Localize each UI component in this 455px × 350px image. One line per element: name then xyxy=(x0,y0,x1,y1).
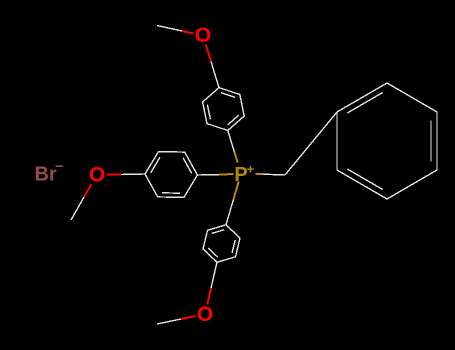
bond P-to-top-ring (orange half) xyxy=(234,152,241,174)
bond P-to-bottom-ring (white half) xyxy=(226,199,234,225)
bond O-top to methyl (red half) xyxy=(182,31,203,35)
bond P-to-top-ring (white half) xyxy=(228,131,235,153)
bond O-bottom to methyl (white half) xyxy=(157,319,181,324)
benzene ring top anisyl xyxy=(203,88,245,131)
aromatic inner bond top anisyl xyxy=(228,115,239,125)
aromatic inner bond big phenyl xyxy=(430,121,432,162)
aromatic inner bond top anisyl xyxy=(207,105,210,120)
bond O-bottom to ring (white half) xyxy=(211,262,217,288)
atom label O bottom xyxy=(196,305,215,324)
bond O-left to ring (white half) xyxy=(121,173,145,176)
bond P-to-left-ring (white half) xyxy=(197,174,219,176)
aromatic inner bond bottom anisyl xyxy=(212,230,225,234)
aromatic inner bond bottom anisyl xyxy=(208,248,218,257)
aromatic inner bond left anisyl xyxy=(162,192,180,194)
bond CH2 to big phenyl ring xyxy=(285,112,337,175)
aromatic inner bond bottom anisyl xyxy=(232,240,235,253)
svg-text:Br: Br xyxy=(35,164,57,186)
aromatic inner bond left anisyl xyxy=(183,158,192,174)
bond P-to-bottom-ring (orange half) xyxy=(234,174,242,200)
bond O-top to methyl (white half) xyxy=(157,26,182,32)
svg-text:O: O xyxy=(89,164,105,187)
bond P-to-left-ring (orange half) xyxy=(219,174,241,175)
svg-text:O: O xyxy=(197,303,213,326)
svg-text:O: O xyxy=(195,24,211,47)
bond P-to-CH2 right (white half) xyxy=(263,173,285,176)
phosphorus label P+ xyxy=(234,163,256,182)
svg-text:−: − xyxy=(55,158,64,175)
svg-text:P: P xyxy=(234,164,247,186)
aromatic inner bond big phenyl xyxy=(348,169,383,189)
benzene ring left anisyl xyxy=(145,152,197,198)
bond O-top to ring (red half) xyxy=(203,35,211,61)
aromatic inner bond left anisyl xyxy=(151,157,160,172)
aromatic inner bond big phenyl xyxy=(348,93,383,113)
bond O-left to methyl (red half) xyxy=(84,175,97,198)
big phenyl ring of benzyl xyxy=(337,83,437,199)
aromatic inner bond top anisyl xyxy=(221,93,235,98)
bond P-to-CH2 right (orange half) xyxy=(241,173,263,176)
bond O-left to methyl (white half) xyxy=(71,197,84,220)
svg-text:+: + xyxy=(247,162,255,177)
bond O-bottom to ring (red half) xyxy=(205,288,211,314)
benzene ring bottom anisyl xyxy=(203,225,240,262)
atom label O left xyxy=(88,165,107,184)
bond O-bottom to methyl (red half) xyxy=(181,314,205,319)
bond O-left to ring (red half) xyxy=(97,174,121,176)
atom label O top xyxy=(194,26,213,45)
bond O-top to ring (white half) xyxy=(211,62,219,88)
